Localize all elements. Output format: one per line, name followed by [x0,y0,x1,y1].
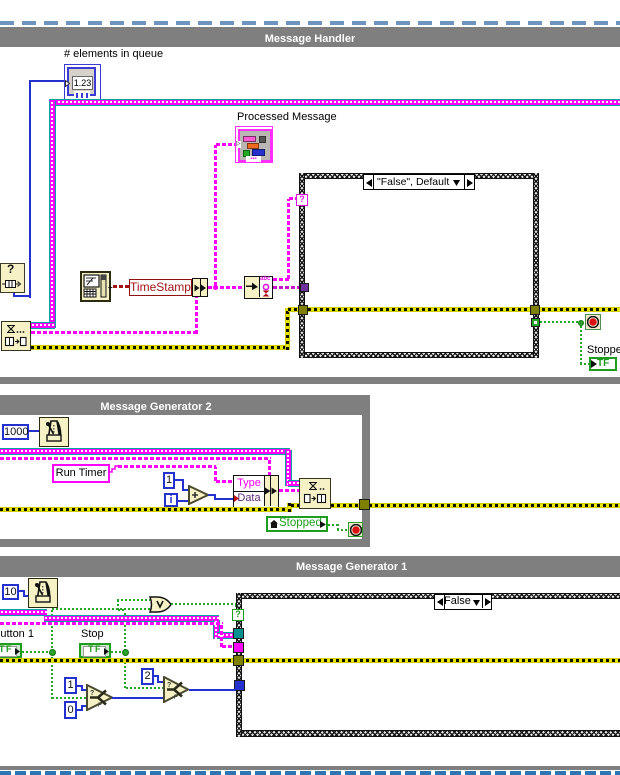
string constant "TimeStamp" [129,279,192,296]
while loop "Message Handler" bottom border [0,377,620,384]
wire: error cluster across the case [302,307,620,312]
wire: dark red dashed (timestamp string) [113,285,129,288]
label Button 1 (left-clipped) [0,628,34,640]
string constant "Run Timer" [52,464,110,483]
wire: blue to wait-ms MG1 [19,590,25,592]
wire: error cluster across MG2 [0,507,289,512]
while loop "Message Handler" title bar [0,27,620,47]
wire: pink cluster bundle to enqueue [279,489,299,492]
wire: queue refnum into MG2 (to Enqueue) [0,448,290,455]
wire blue 2 to select2 [154,675,159,677]
tunnel: error out MG2 right border [359,499,370,510]
numeric constant 1 (MG2) [163,472,175,489]
Variant To Data style function icon [244,276,273,299]
tunnel: variant (purple) [300,283,309,292]
tunnel: queue refnum (teal) [233,628,244,639]
wire: green to MG2 loop condition [328,524,339,526]
wire: blue select2 output to tunnel [189,689,236,691]
label Stop [81,628,104,640]
numeric constant 0 (MG1) [64,701,77,719]
wire blue 1 to add [175,479,184,481]
wire: green from Button1 to junction [22,651,51,653]
Wait Until Next ms Multiple icon (metronome) MG1 [28,578,58,608]
Select function 2 [163,676,189,703]
wire: blue add result to Data [208,494,216,496]
wire: message cluster (pink dashed) from Dequeue to concat node [31,331,197,334]
wire: pink cluster into MG1 [0,622,223,625]
numeric constant 2 (MG1) [141,668,154,685]
wire: green OR output to selector [171,603,237,605]
junction dot Button1 [49,649,56,656]
cluster indicator "Processed Message" icon [235,126,273,163]
wire: blue select1 to select2 [112,697,164,699]
loop condition terminal (stop sign) Message Handler [585,314,601,330]
wire: queue refnum (teal/magenta) big route of Message Handler [49,99,620,106]
wire: blue to wait-ms [29,430,39,432]
tunnel: cluster (magenta) [233,642,244,653]
case structure (Message Handler) borders [299,173,539,179]
wire: error cluster from Dequeue up into case structure [31,345,289,350]
case selector terminal [?] MG1 [232,609,244,621]
numeric indicator "# elements in queue" (1.23 icon) [64,64,101,101]
local variable "Stopped" (TF) [589,357,617,371]
concatenate node (two dark arrows) [192,278,208,297]
boolean control "Button 1" (left-clipped) [0,643,22,658]
case selector label "False" [434,594,492,610]
wire: variant (purple) into case structure [273,286,302,289]
wire: pink cluster bus into bundle node [0,457,271,460]
Add function (triangle) [188,485,209,505]
wire: error cluster across MG1 and its case [0,658,620,663]
wires blue from 1 and 0 to select [77,685,83,687]
while loop MG2 right border [362,415,370,539]
svg-text:F: F [174,695,178,701]
wire: blue i32 from Get Queue Status to indicator [30,80,66,82]
label "# elements in queue" [64,48,163,60]
while loop "Message Generator 2" title bar [0,395,370,415]
while loop MG2 bottom border [0,539,370,547]
while loop "Message Generator 1" title bar [0,556,620,577]
Format Date/Time String VI icon [80,271,111,302]
wire: pink string from variant icon top to case selector [273,278,289,281]
numeric constant 10 [2,584,19,600]
Select function 1 [86,684,113,711]
tunnel: i32 (blue) [234,680,245,691]
svg-text:F: F [98,703,102,709]
iteration terminal constant "i" [164,493,178,507]
OR gate [149,596,172,613]
tunnel: error out (right) [530,305,540,315]
wire: green into select 1 [52,697,87,699]
Bundle By Name node (Type / Data) [233,475,279,508]
wire: green into select 2 [126,687,164,689]
Get Queue Status function icon [0,263,25,293]
svg-text:?: ? [90,690,94,697]
bottom frame dashed border [0,771,620,775]
Dequeue Element function icon [1,321,31,351]
wire: pink from Run Timer to bundle (Type) [110,464,119,474]
local variable "Stopped" (read) [266,516,328,532]
wire: queue refnum into MG1 [0,609,47,616]
case selector label "False", Default [363,174,475,190]
wire junction (green dot) [578,320,584,326]
wire: green from Stop to junction [111,651,124,653]
upper frame dashed border (clipped structure above) [0,21,620,25]
label "Processed Message" [237,111,337,123]
tunnel: error in (left) [298,305,308,315]
numeric constant 1 (MG1) [64,677,77,694]
case structure (Message Generator 1) borders [236,593,620,599]
Enqueue Element function icon [299,478,331,509]
wire blue i to add [178,500,189,502]
tunnel: error (olive) [233,655,244,666]
wire junction (pink dot) [213,285,218,290]
loop condition terminal (stop sign) MG2 [348,522,363,537]
wire: pink dashed from concat to Variant-To-Data with branch up to indicator [208,286,244,289]
Wait Until Next ms Multiple icon (metronome) MG2 [39,417,69,447]
tunnel: boolean stop (right border) [531,318,540,327]
case selector terminal [?] [296,194,308,206]
junction dot Stop [122,649,129,656]
numeric constant 1000 [2,424,29,440]
bottom frame gray edge [0,766,620,770]
wire: green boolean verticals (Button 1 / Stop) [51,609,53,652]
wire: green boolean to loop condition [540,321,581,323]
svg-text:?: ? [167,682,171,689]
boolean control "Stop" [79,643,111,658]
label "Stopped" (clipped at right edge) [587,344,620,356]
